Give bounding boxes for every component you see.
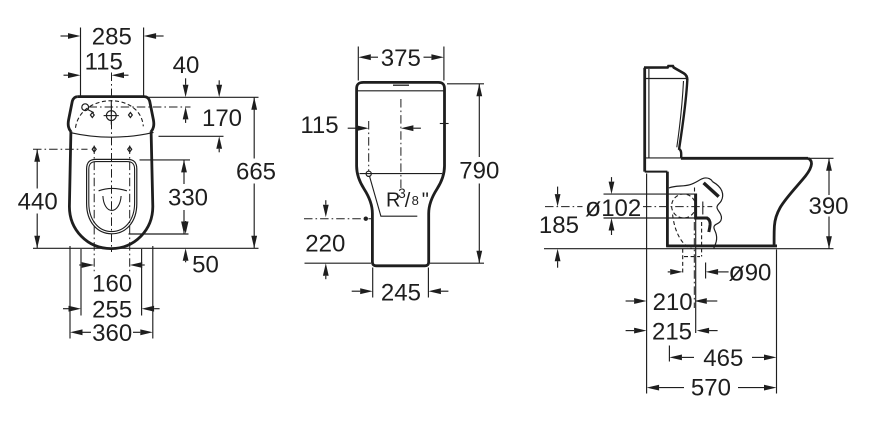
inlet height centerline <box>304 218 374 220</box>
inlet junction dot <box>364 217 368 221</box>
svg-text:570: 570 <box>691 374 731 401</box>
dimension 115 front <box>300 112 421 139</box>
cistern outline plan view <box>68 97 154 132</box>
extension line tank bottom <box>159 135 224 137</box>
fixing cross mark <box>440 119 449 127</box>
trap top profile <box>669 178 713 188</box>
dimension 255 <box>63 296 160 323</box>
extension line outlet top <box>604 193 696 195</box>
outlet center tick <box>702 202 704 215</box>
plan vertical centerline <box>111 73 113 253</box>
svg-text:ø102: ø102 <box>585 192 641 222</box>
dimension 210 <box>626 289 718 316</box>
svg-text:665: 665 <box>236 159 276 186</box>
front view centerline <box>400 99 402 188</box>
bowl front profile side view <box>774 158 811 245</box>
extension line 570 left <box>646 174 648 394</box>
cistern lid front arc plan view <box>70 132 154 137</box>
dimension 160 <box>79 262 145 297</box>
label R3/8 inch <box>386 186 429 212</box>
lid line centerline <box>89 106 191 108</box>
svg-text:210: 210 <box>653 289 693 316</box>
svg-text:50: 50 <box>192 252 219 279</box>
bowl deck side view <box>681 157 808 160</box>
dimension 115 plan <box>64 49 129 78</box>
cistern front side view <box>679 80 687 158</box>
svg-text:185: 185 <box>539 212 579 239</box>
dimension 220 <box>305 200 345 279</box>
dimension 570 <box>647 374 777 401</box>
svg-text:ø90: ø90 <box>729 257 772 287</box>
dimension 40 <box>173 52 200 123</box>
trap outlet bold profile <box>696 194 711 233</box>
water inlet point <box>366 171 371 176</box>
dimension 245 <box>352 279 449 306</box>
svg-text:8: 8 <box>412 193 419 208</box>
seat hinge hole right <box>128 147 132 152</box>
dimension 215 <box>626 319 718 346</box>
svg-text:/: / <box>405 190 411 212</box>
seat hinge hole left <box>92 147 96 152</box>
sump outline arc <box>103 196 121 210</box>
drain extension line <box>695 219 697 333</box>
dimension 330 <box>168 160 208 234</box>
svg-text:245: 245 <box>381 279 421 306</box>
extension line base left <box>305 262 372 264</box>
svg-text:440: 440 <box>18 189 58 216</box>
extension line 360 right <box>152 246 154 339</box>
extension line 255 right <box>141 249 143 316</box>
extension line seat top <box>140 159 191 161</box>
svg-text:220: 220 <box>305 231 345 258</box>
outlet dashed circle <box>672 194 696 218</box>
tank fixing hole right <box>129 113 133 118</box>
dimension 375 <box>358 45 444 72</box>
drain pipe hidden left <box>682 249 684 274</box>
dimension 390 <box>808 158 848 248</box>
svg-text:215: 215 <box>652 319 692 346</box>
extension line tank top <box>148 96 259 98</box>
extension line 390 top <box>809 157 834 159</box>
svg-text:160: 160 <box>92 270 132 297</box>
extension line 285 right <box>143 28 145 97</box>
drain hidden stub <box>694 188 696 194</box>
svg-text:790: 790 <box>459 158 499 185</box>
outlet axis centerline <box>545 206 712 208</box>
inlet leader line <box>370 176 418 216</box>
extension line 375 right <box>443 47 445 81</box>
svg-text:170: 170 <box>202 105 242 132</box>
cistern lid bottom side <box>646 78 687 80</box>
svg-text:375: 375 <box>381 45 421 72</box>
hinge hole centerline right <box>129 146 131 272</box>
drain pipe hidden right <box>701 222 703 257</box>
dimension 360 <box>70 320 153 347</box>
cistern lid side view <box>644 66 687 80</box>
cistern inner dashed arc <box>76 101 144 128</box>
trap right profile <box>713 182 723 249</box>
tank fixing hole left <box>90 113 94 118</box>
extension line 285 left <box>80 28 82 97</box>
cistern front inner line <box>677 81 684 147</box>
dimension 170 <box>202 80 242 152</box>
extension line base right <box>430 262 484 264</box>
lid lock circle <box>82 104 94 113</box>
svg-text:": " <box>422 190 429 212</box>
drain pipe hidden bottom <box>684 256 700 258</box>
svg-text:285: 285 <box>92 24 132 51</box>
hinge hole centerline left <box>93 146 95 272</box>
dimension 285 <box>61 24 164 51</box>
dimension 185 <box>539 187 579 268</box>
extension line 255 left <box>80 249 82 316</box>
tank bowl junction line <box>360 173 443 175</box>
toilet outline front view <box>357 82 445 265</box>
drain vertical centerline <box>693 222 695 308</box>
svg-text:40: 40 <box>173 52 200 79</box>
extension line bowl bottom <box>33 247 259 249</box>
dimension 790 <box>459 84 499 263</box>
svg-text:330: 330 <box>168 185 208 212</box>
extension line 245 left <box>372 268 374 298</box>
extension line 465 left <box>668 346 670 362</box>
seat inner outline <box>89 162 135 232</box>
shelf line behind cistern <box>645 157 681 159</box>
dimension 50 <box>183 221 219 279</box>
flush button crosshair <box>104 100 119 124</box>
water surface arc <box>99 188 127 190</box>
trap bold edge <box>704 183 719 197</box>
trap hidden outline <box>673 215 692 249</box>
extension line outlet bottom <box>604 217 696 219</box>
extension line 790 top <box>447 83 484 85</box>
extension line 570 right <box>776 250 778 394</box>
extension line 360 left <box>69 246 71 339</box>
hinge axis centerline <box>33 148 88 150</box>
bowl bottom side view <box>666 244 777 247</box>
svg-text:390: 390 <box>808 193 848 220</box>
cistern back side view <box>643 68 646 172</box>
extension line 375 left <box>357 47 359 81</box>
extension line seat bottom <box>129 233 189 235</box>
extension line 245 right <box>427 268 429 298</box>
svg-text:115: 115 <box>300 112 338 139</box>
cistern back inner line <box>648 69 650 158</box>
dimension 665 <box>236 97 276 248</box>
inlet centerline <box>368 121 370 171</box>
seat outer outline <box>87 159 137 233</box>
cistern base ledge <box>645 171 668 173</box>
bowl outline plan view <box>69 131 152 248</box>
dimension diameter 102 <box>585 177 641 235</box>
dimension 465 <box>669 345 776 372</box>
bowl back side view <box>666 172 669 247</box>
floor line <box>544 248 834 250</box>
dimension diameter 90 <box>668 257 772 287</box>
svg-text:360: 360 <box>92 320 132 347</box>
svg-text:115: 115 <box>85 49 123 76</box>
svg-text:465: 465 <box>703 345 743 372</box>
flush button front <box>393 84 409 86</box>
dimension 440 <box>18 149 58 248</box>
cistern lid bottom line <box>357 90 444 92</box>
